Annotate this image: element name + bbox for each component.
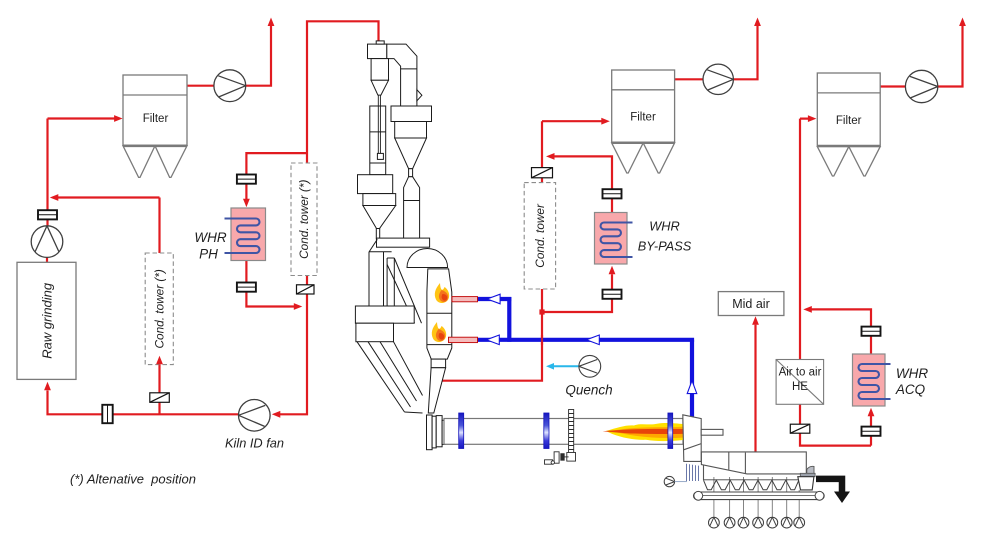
kiln inlet seal rings: [427, 415, 433, 450]
valve louver V4: [603, 290, 622, 299]
damper D1: [150, 393, 170, 403]
kiln hood: [683, 415, 723, 462]
wire branch to cond tower 1: [158, 365, 160, 415]
wire filter3 exhaust: [880, 26, 962, 87]
wire tertiary air vertical branch: [507, 297, 511, 342]
valve louver V1: [237, 175, 256, 184]
flame kiln: [603, 423, 683, 441]
valve louver V6: [862, 427, 881, 436]
svg-text:WHR: WHR: [896, 366, 928, 381]
box cond tower 2 dashed: [291, 163, 317, 276]
heat exchanger WHR PH: [225, 208, 266, 261]
svg-text:Filter: Filter: [630, 112, 656, 124]
wire raw fan to raw grinding box: [46, 257, 48, 262]
burner tube calciner 1: [452, 297, 478, 302]
svg-text:BY-PASS: BY-PASS: [638, 239, 692, 254]
wire cooler side fan link: [675, 481, 687, 483]
wire tertiary air lower duct: [478, 338, 695, 342]
wire filter2 inlet: [542, 121, 606, 182]
fan 3: [905, 70, 937, 102]
svg-text:Cond. tower: Cond. tower: [533, 203, 547, 268]
cooler discharge box: [798, 477, 814, 490]
wire filter1 to fan1: [187, 85, 214, 87]
kiln tyre 3: [668, 413, 673, 449]
wire calciner takeoff riser: [442, 312, 543, 381]
cooler conveyor belt: [694, 492, 825, 500]
wire cond tower 2 down to kiln ID fan: [276, 276, 307, 415]
wire tertiary air upper duct: [478, 297, 512, 301]
filter 2: [612, 70, 675, 173]
heat exchanger WHR ACQ: [853, 354, 891, 406]
svg-text:PH: PH: [199, 247, 218, 262]
wire WHR PH outlet return: [246, 261, 297, 307]
valve louver V3: [603, 189, 622, 198]
kiln inlet top box: [355, 306, 414, 323]
preheater tower: [355, 41, 451, 450]
valve orifice kiln ID line: [102, 405, 112, 423]
wire kiln ID fan to raw grinding: [48, 391, 239, 415]
svg-text:Filter: Filter: [143, 113, 169, 125]
filter 3: [817, 73, 880, 176]
kiln shell: [444, 419, 683, 445]
svg-text:Cond. tower (*): Cond. tower (*): [152, 269, 166, 348]
kiln girth gear: [567, 410, 576, 462]
wire filter2 exhaust: [675, 26, 758, 79]
box cond tower 3 dashed: [524, 183, 555, 289]
dip tube stage1: [378, 95, 380, 153]
cooler fans row: [709, 517, 805, 528]
heat exchanger WHR BY-PASS: [595, 213, 633, 265]
box raw grinding: [17, 262, 76, 379]
riser diagonal duct: [387, 258, 421, 323]
wire fan1 exhaust stack: [246, 26, 271, 86]
wire arrow inside cond tower 1: [158, 363, 160, 366]
calciner bottom taper: [431, 359, 446, 368]
fan quench: [579, 355, 601, 377]
calciner vessel: [427, 269, 452, 359]
duct stage2 to stage4: [404, 177, 420, 239]
cyclone stage2: [391, 106, 432, 122]
wire filter1 inlet column: [48, 119, 119, 227]
valve louver V2: [237, 283, 256, 292]
fan cooler side: [664, 476, 674, 486]
svg-text:WHR: WHR: [194, 230, 226, 245]
calciner dome: [407, 248, 448, 267]
svg-text:ACQ: ACQ: [895, 382, 926, 397]
valve louver V7: [38, 210, 57, 219]
wire red over blue crossing: [541, 335, 543, 345]
wire WHR BY-PASS loop: [542, 156, 612, 312]
fan raw mill: [31, 226, 63, 258]
node flow arrow upper duct: [487, 294, 500, 304]
cooler hood seal strips: [687, 464, 699, 481]
node flow arrow lower duct left: [486, 335, 499, 345]
svg-text:(*) Altenative position: (*) Altenative position: [70, 472, 196, 487]
wire mid air riser: [754, 325, 756, 452]
fan kiln ID: [239, 400, 271, 432]
svg-text:Air to air: Air to air: [779, 367, 822, 379]
wire cond tower 1 top to filter1 column: [54, 198, 160, 254]
box mid air: [718, 292, 784, 316]
damper D2: [297, 285, 315, 294]
kiln burner pipe: [701, 429, 723, 435]
wire filter3 inlet main column: [800, 119, 871, 446]
fan 1: [214, 70, 246, 102]
svg-text:HE: HE: [792, 381, 808, 393]
kiln drive motor: [545, 452, 569, 464]
riser column upper: [370, 106, 386, 175]
svg-text:Filter: Filter: [836, 115, 862, 127]
cyclone stage4 inlet box: [377, 238, 430, 247]
flame calciner 2: [432, 322, 446, 342]
wire cond tower 3 bottom to junction: [541, 289, 543, 312]
kiln tyre 1: [459, 413, 464, 449]
cooler fan risers: [714, 477, 799, 517]
fan 2: [703, 64, 733, 94]
svg-text:Raw grinding: Raw grinding: [40, 282, 55, 359]
svg-text:Kiln ID fan: Kiln ID fan: [225, 436, 284, 451]
wire tertiary air riser from kiln hood: [690, 340, 694, 417]
box air to air HE: [776, 360, 824, 405]
svg-text:Cond. tower (*): Cond. tower (*): [297, 179, 311, 258]
cyclone stage3: [358, 175, 393, 194]
kiln tyre 2: [544, 413, 549, 449]
flame calciner 1: [435, 283, 449, 303]
cyclone stage1 outlet duct: [387, 44, 417, 106]
cooler discharge hump: [807, 466, 814, 474]
svg-text:WHR: WHR: [649, 219, 680, 234]
filter 1: [123, 75, 187, 177]
wire quench line: [550, 365, 579, 367]
wire WHR ACQ loop: [807, 309, 871, 445]
riser column lower: [369, 239, 394, 306]
box cond tower 1 dashed: [145, 253, 173, 365]
node flow arrow lower duct right: [586, 335, 599, 345]
node flow arrow riser: [687, 381, 697, 394]
cooler body: [701, 452, 806, 480]
wire clinker discharge arrow: [816, 479, 842, 492]
wire WHR PH inlet branch: [246, 153, 307, 203]
wire preheater exhaust to junction: [307, 21, 379, 163]
node junction: [539, 309, 544, 314]
burner tube calciner 2: [449, 337, 478, 342]
cooler grate zigzag: [704, 480, 799, 490]
cooler discharge hat: [800, 473, 815, 476]
kiln inlet lower box: [356, 323, 394, 342]
damper D3: [532, 168, 553, 178]
cyclone stage1 body: [368, 44, 387, 59]
valve louver V5: [862, 327, 881, 336]
svg-text:Quench: Quench: [565, 383, 612, 398]
svg-text:Mid air: Mid air: [732, 297, 770, 311]
kiln inlet chute: [357, 342, 423, 412]
damper D4: [790, 424, 810, 433]
